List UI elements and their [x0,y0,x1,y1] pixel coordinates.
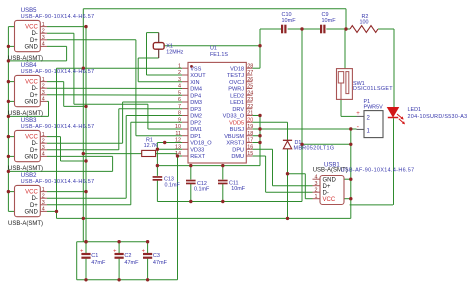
svg-text:3: 3 [42,145,45,151]
svg-text:0.1mF: 0.1mF [194,187,210,193]
svg-text:5: 5 [178,90,181,96]
svg-text:28: 28 [247,63,253,69]
svg-text:VD33: VD33 [190,147,204,153]
svg-text:DM2: DM2 [190,114,202,120]
svg-text:OVCJ: OVCJ [229,80,244,86]
svg-text:0.1mF: 0.1mF [165,182,181,188]
svg-text:BUSJ: BUSJ [230,127,245,133]
svg-text:USB-A(SMT): USB-A(SMT) [8,221,43,227]
svg-text:1: 1 [42,132,45,138]
svg-text:10mF: 10mF [231,186,245,192]
svg-text:24: 24 [247,90,253,96]
svg-text:20: 20 [247,117,253,123]
svg-text:9: 9 [178,117,181,123]
svg-text:10: 10 [175,124,181,130]
svg-text:MBR0520LT1G: MBR0520LT1G [294,145,335,151]
svg-text:GND: GND [323,177,337,183]
svg-text:DM4: DM4 [190,87,202,93]
svg-text:LED1: LED1 [230,100,244,106]
svg-text:47mF: 47mF [124,260,139,266]
svg-text:VD18_O: VD18_O [190,141,212,147]
svg-text:VSS: VSS [190,66,201,72]
svg-text:1: 1 [315,194,318,200]
svg-text:DP3: DP3 [190,107,201,113]
svg-text:18: 18 [247,131,253,137]
svg-text:8: 8 [178,111,181,117]
svg-text:XOUT: XOUT [190,73,206,79]
svg-text:6: 6 [178,97,181,103]
svg-text:DM3: DM3 [190,100,202,106]
svg-text:2: 2 [315,187,318,193]
svg-text:100: 100 [360,20,369,26]
svg-text:15: 15 [247,151,253,157]
svg-text:4: 4 [42,207,45,213]
svg-text:2: 2 [178,70,181,76]
svg-text:27: 27 [247,70,253,76]
svg-text:DP4: DP4 [190,93,201,99]
svg-text:D+: D+ [30,148,38,154]
svg-text:2: 2 [42,194,45,200]
svg-text:2: 2 [42,139,45,145]
svg-text:D-: D- [31,86,37,92]
svg-text:VCC: VCC [25,80,38,86]
svg-text:USB-AF-90-10X14.4-H6.57: USB-AF-90-10X14.4-H6.57 [21,124,95,130]
svg-text:11: 11 [175,131,181,137]
svg-text:4: 4 [42,97,45,103]
svg-text:LED1: LED1 [408,107,422,113]
svg-text:TESTJ: TESTJ [227,73,244,79]
svg-text:D-: D- [31,31,37,37]
svg-text:2: 2 [42,29,45,35]
svg-text:DP1: DP1 [190,134,201,140]
svg-text:21: 21 [247,111,253,117]
svg-text:U1: U1 [210,46,217,52]
svg-text:16: 16 [247,144,253,150]
svg-text:DSIC01LSGET: DSIC01LSGET [353,86,393,92]
svg-text:USB-AF-90-10X14.4-H6.57: USB-AF-90-10X14.4-H6.57 [21,179,95,185]
svg-text:GND: GND [24,44,38,50]
svg-text:D-: D- [323,190,329,196]
svg-text:XIN: XIN [190,80,199,86]
svg-text:4: 4 [315,174,318,180]
svg-text:D-: D- [31,196,37,202]
svg-text:DRV: DRV [232,107,244,113]
svg-text:USB-AF-90-10X14.4-H6.57: USB-AF-90-10X14.4-H6.57 [21,69,95,75]
svg-text:12MHz: 12MHz [166,50,183,56]
svg-text:VCC: VCC [323,197,336,203]
svg-text:D+: D+ [30,203,38,209]
svg-text:12.7K: 12.7K [144,143,158,149]
svg-text:USB-A(SMT): USB-A(SMT) [8,56,43,62]
svg-text:10mF: 10mF [282,18,297,24]
svg-text:4: 4 [178,84,181,90]
svg-text:C2: C2 [124,253,131,259]
svg-text:VBUSM: VBUSM [224,134,244,140]
svg-text:3: 3 [42,35,45,41]
svg-text:VDD5: VDD5 [229,120,244,126]
svg-text:VCC: VCC [25,25,38,31]
svg-text:DPU: DPU [232,147,244,153]
svg-text:204-10SURD/S530-A3: 204-10SURD/S530-A3 [408,114,468,120]
svg-text:D+: D+ [30,93,38,99]
svg-text:PWRJ: PWRJ [228,87,244,93]
svg-text:LED2: LED2 [230,93,244,99]
svg-text:3: 3 [315,181,318,187]
svg-text:GND: GND [24,99,38,105]
svg-text:C1: C1 [91,253,98,259]
svg-text:7: 7 [178,104,181,110]
svg-text:3: 3 [42,200,45,206]
svg-text:22: 22 [247,104,253,110]
svg-text:+: + [356,111,360,117]
svg-text:25: 25 [247,84,253,90]
svg-text:4: 4 [42,152,45,158]
svg-text:3: 3 [178,77,181,83]
svg-text:GND: GND [24,209,38,215]
svg-text:FE1.1S: FE1.1S [210,52,228,58]
svg-text:3: 3 [42,90,45,96]
svg-text:C3: C3 [153,253,160,259]
svg-text:GND: GND [24,154,38,160]
svg-text:1: 1 [178,63,181,69]
svg-text:VCC: VCC [25,190,38,196]
svg-text:REXT: REXT [190,154,206,160]
svg-text:D+: D+ [323,184,331,190]
svg-text:VD33_O: VD33_O [223,114,245,120]
svg-text:D+: D+ [30,38,38,44]
svg-text:USB-AF-90-10X14.4-H6.57: USB-AF-90-10X14.4-H6.57 [21,14,95,20]
svg-text:47mF: 47mF [153,260,168,266]
svg-text:23: 23 [247,97,253,103]
svg-text:USB-AF-90-10X14.4-H6.57: USB-AF-90-10X14.4-H6.57 [341,168,415,174]
svg-text:PWR5V: PWR5V [364,105,384,111]
svg-text:1: 1 [42,77,45,83]
svg-text:D-: D- [31,141,37,147]
svg-text:VCC: VCC [25,135,38,141]
svg-text:17: 17 [247,138,253,144]
svg-text:13: 13 [175,144,181,150]
svg-text:1: 1 [42,187,45,193]
svg-text:4: 4 [42,42,45,48]
svg-text:2: 2 [42,84,45,90]
svg-text:19: 19 [247,124,253,130]
svg-text:DP2: DP2 [190,120,201,126]
svg-text:VD18: VD18 [230,66,244,72]
svg-text:XRSTJ: XRSTJ [226,141,244,147]
svg-text:47mF: 47mF [91,260,106,266]
svg-text:26: 26 [247,77,253,83]
svg-text:DMU: DMU [231,154,244,160]
svg-text:USB-A(SMT): USB-A(SMT) [8,166,43,172]
svg-text:14: 14 [175,151,181,157]
svg-text:DM1: DM1 [190,127,202,133]
svg-text:USB-A(SMT): USB-A(SMT) [8,111,43,117]
svg-text:12: 12 [175,138,181,144]
svg-text:10mF: 10mF [322,18,337,24]
svg-text:1: 1 [42,22,45,28]
